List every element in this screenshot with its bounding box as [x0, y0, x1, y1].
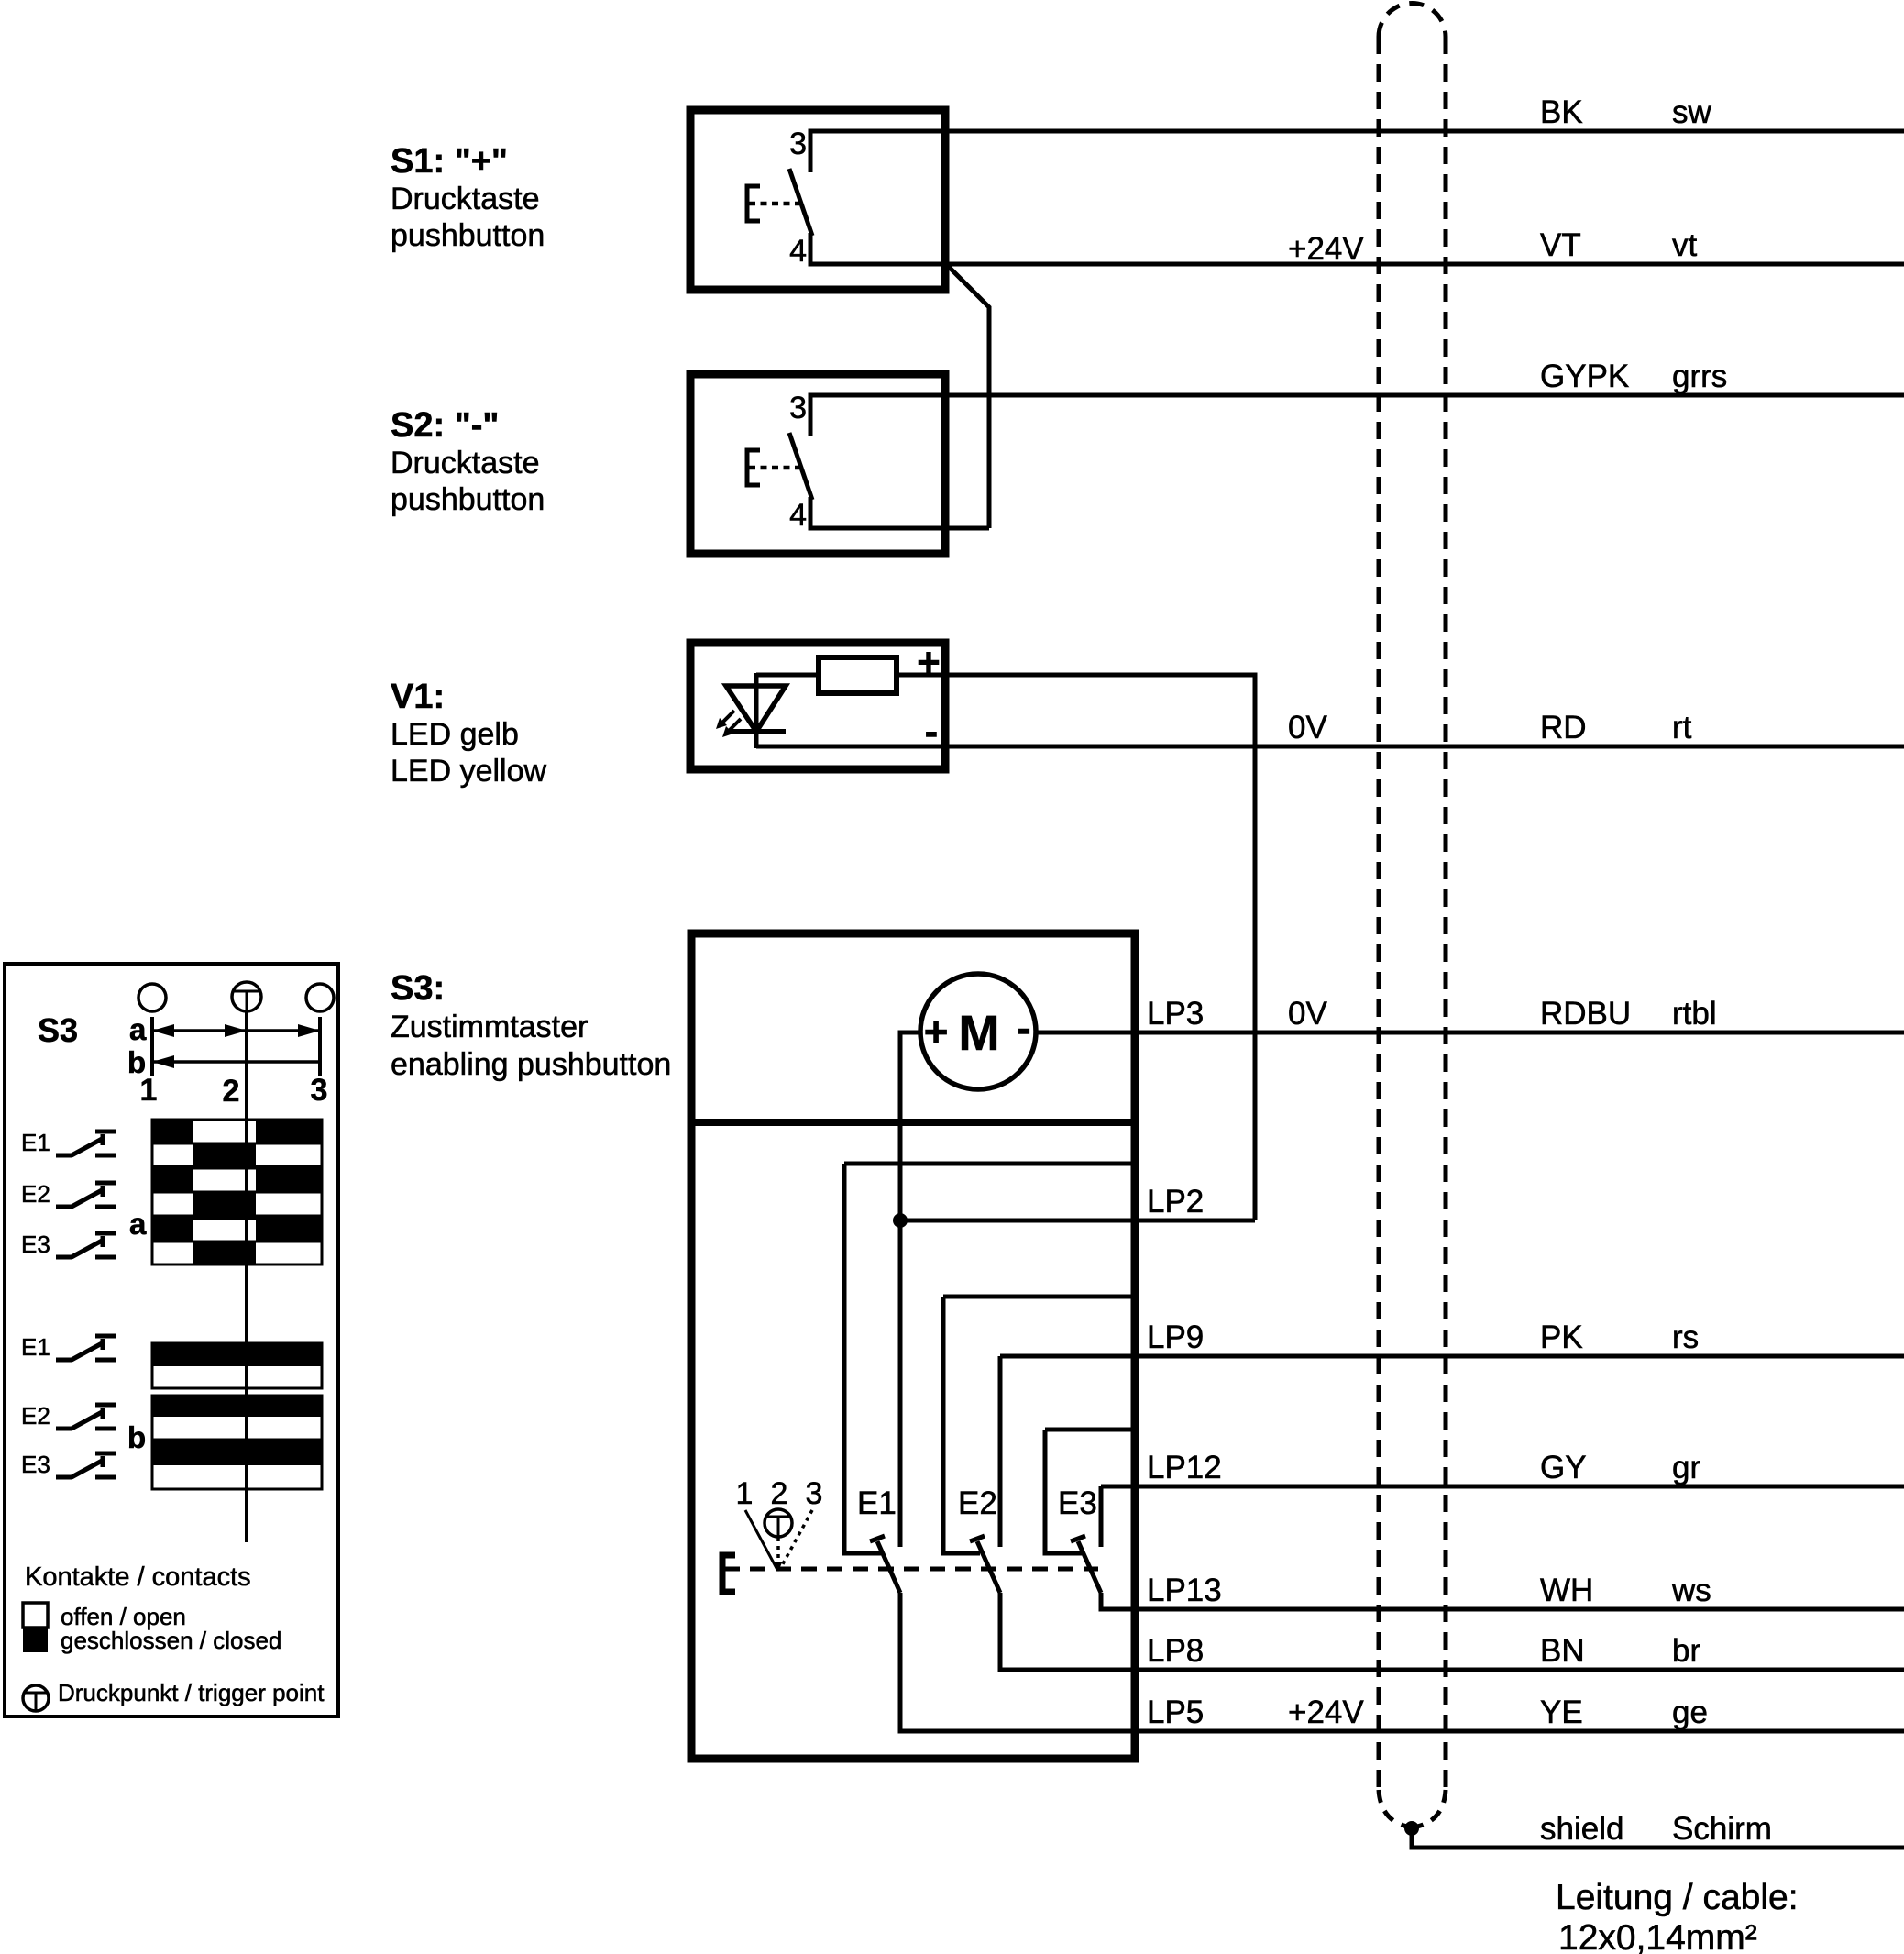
svg-text:enabling pushbutton: enabling pushbutton — [391, 1047, 671, 1082]
wire BK from S1 pin 3 — [810, 131, 1904, 172]
svg-text:LED yellow: LED yellow — [391, 754, 547, 789]
svg-text:+: + — [924, 1008, 949, 1055]
svg-text:a: a — [129, 1207, 147, 1241]
E3 left terminal lead — [1045, 1430, 1082, 1553]
S3 travel solid line from 1 — [745, 1510, 777, 1570]
svg-text:1: 1 — [140, 1073, 158, 1108]
svg-text:V1:: V1: — [391, 678, 445, 716]
E3 output lead to LP13 — [1101, 1593, 1904, 1609]
svg-text:LP5: LP5 — [1147, 1695, 1204, 1730]
legend closed square — [23, 1628, 48, 1652]
svg-text:2: 2 — [771, 1476, 788, 1511]
V1 anode wire to resistor — [756, 673, 819, 678]
svg-text:M: M — [959, 1006, 1000, 1061]
shield junction dot — [1404, 1821, 1419, 1836]
svg-text:GYPK: GYPK — [1540, 359, 1629, 394]
wire E3 upper terminal to frame — [1045, 1428, 1135, 1432]
S1 pin 4 lead — [809, 235, 813, 266]
svg-text:0V: 0V — [1288, 710, 1327, 745]
S2 actuator bracket — [747, 450, 760, 485]
svg-text:RDBU: RDBU — [1540, 996, 1631, 1032]
svg-text:Kontakte / contacts: Kontakte / contacts — [25, 1562, 251, 1592]
wire GYPK from S2 pin 3 — [810, 395, 1904, 436]
svg-text:12x0,14mm²: 12x0,14mm² — [1558, 1918, 1757, 1954]
S1 actuator bracket — [747, 186, 760, 221]
pushbutton S1 box — [690, 110, 945, 290]
svg-text:Druckpunkt / trigger point: Druckpunkt / trigger point — [58, 1679, 325, 1706]
svg-text:1: 1 — [736, 1476, 754, 1511]
table b row E2 switch symbol — [56, 1405, 116, 1429]
wire E2 upper terminal to frame — [943, 1295, 1135, 1299]
svg-text:YE: YE — [1540, 1695, 1583, 1730]
motor M1 circle — [920, 974, 1036, 1089]
svg-text:RD: RD — [1540, 710, 1587, 745]
svg-text:LP9: LP9 — [1147, 1319, 1204, 1355]
cable sheath bottom converge left — [1379, 1790, 1407, 1827]
table a row E2 switch symbol — [56, 1183, 116, 1207]
E2 output lead to LP8 — [1000, 1593, 1904, 1670]
S3 actuator bracket — [722, 1555, 735, 1592]
svg-text:0V: 0V — [1288, 996, 1327, 1032]
svg-text:LP13: LP13 — [1147, 1573, 1222, 1608]
E3 switch blade — [1071, 1536, 1101, 1593]
travel arrow a mid head — [225, 1024, 247, 1037]
S3 internal divider — [691, 1119, 1135, 1126]
svg-text:S2: "-": S2: "-" — [391, 406, 499, 445]
svg-text:rtbl: rtbl — [1672, 996, 1717, 1032]
svg-text:PK: PK — [1540, 1319, 1583, 1355]
table a row E1 switch symbol — [56, 1132, 116, 1155]
table b E3 cells — [152, 1442, 322, 1489]
svg-text:Leitung / cable:: Leitung / cable: — [1556, 1878, 1799, 1917]
svg-text:4: 4 — [789, 498, 807, 533]
svg-text:2: 2 — [223, 1074, 240, 1109]
button position circle 1 — [138, 984, 166, 1011]
svg-text:br: br — [1672, 1633, 1700, 1669]
svg-text:rt: rt — [1672, 710, 1692, 745]
travel tick 3 — [318, 1017, 322, 1076]
travel arrow a right head — [298, 1024, 320, 1037]
svg-text:S3: S3 — [38, 1011, 78, 1049]
V1 LED emission arrow 2 — [722, 719, 741, 737]
svg-text:ge: ge — [1672, 1695, 1708, 1730]
travel arrow a left head — [152, 1024, 174, 1037]
wire LP9 PK from E2 — [1000, 1354, 1904, 1359]
svg-text:E3: E3 — [1058, 1485, 1097, 1521]
enabling switch S3 box — [691, 933, 1135, 1759]
svg-text:E1: E1 — [21, 1129, 50, 1156]
travel tick 1 — [150, 1017, 154, 1076]
S3 trigger point symbol — [765, 1509, 792, 1537]
wire motor plus down to E1 — [900, 1032, 920, 1547]
svg-text:grrs: grrs — [1672, 359, 1727, 394]
S3 travel dotted line from 2 — [776, 1538, 780, 1566]
wire E1 upper terminal to frame — [844, 1162, 1135, 1166]
svg-text:E2: E2 — [21, 1402, 50, 1430]
E2 right terminal lead from LP9 — [998, 1356, 1003, 1547]
travel arrow a line — [152, 1029, 320, 1032]
wire LP2 stub — [900, 1219, 1255, 1223]
svg-text:LP2: LP2 — [1147, 1184, 1204, 1220]
button position circle 2 trigger — [232, 982, 261, 1011]
wire motor minus to LP3 RDBU — [1038, 1031, 1904, 1035]
table b row E1 switch symbol — [56, 1336, 116, 1360]
wire RD 0V from V1 minus — [756, 745, 1904, 749]
svg-text:BK: BK — [1540, 94, 1583, 130]
E1 output lead to LP5 — [900, 1593, 1904, 1731]
cable sheath left dashed line — [1377, 37, 1381, 1790]
svg-text:a: a — [129, 1012, 147, 1046]
travel arrow b line — [152, 1060, 320, 1064]
svg-text:LP8: LP8 — [1147, 1633, 1204, 1669]
V1 resistor — [819, 657, 897, 693]
svg-text:vt: vt — [1672, 227, 1698, 263]
svg-text:E3: E3 — [21, 1451, 50, 1478]
svg-text:Zustimmtaster: Zustimmtaster — [391, 1010, 588, 1044]
table b E2 cells — [152, 1396, 322, 1440]
node junction LP2 — [893, 1213, 908, 1228]
sidebar center line — [245, 1011, 248, 1542]
svg-text:3: 3 — [806, 1476, 823, 1511]
svg-text:shield: shield — [1540, 1811, 1623, 1847]
E3 right terminal lead from LP12 — [1099, 1486, 1104, 1547]
svg-text:E1: E1 — [857, 1485, 897, 1521]
S3 travel dotted line from 3 — [780, 1510, 812, 1569]
table b E1 cells — [152, 1343, 322, 1388]
pushbutton S2 box — [690, 374, 945, 554]
cable sheath right dashed line — [1444, 37, 1448, 1790]
cable sheath top arc — [1379, 3, 1446, 37]
travel arrow b left head — [152, 1055, 174, 1068]
legend trigger symbol — [23, 1685, 49, 1711]
S3 actuator linkage (dashed) — [724, 1567, 1098, 1572]
svg-text:pushbutton: pushbutton — [391, 482, 545, 517]
cable sheath bottom converge right — [1417, 1790, 1446, 1827]
legend open square — [23, 1603, 48, 1628]
svg-text:S3:: S3: — [391, 969, 445, 1008]
E2 left terminal lead — [943, 1297, 980, 1553]
S2 actuator linkage (dashed) — [749, 466, 799, 470]
table a E2 cells — [152, 1168, 322, 1216]
svg-text:b: b — [127, 1420, 146, 1454]
svg-text:E2: E2 — [21, 1180, 50, 1208]
svg-text:Drucktaste: Drucktaste — [391, 182, 540, 216]
svg-text:Drucktaste: Drucktaste — [391, 446, 540, 480]
svg-text:ws: ws — [1671, 1573, 1711, 1608]
svg-text:+24V: +24V — [1288, 1695, 1364, 1730]
svg-text:+24V: +24V — [1288, 231, 1364, 267]
svg-text:-: - — [1017, 1004, 1030, 1052]
S1 switch blade — [789, 169, 812, 236]
wire shield — [1412, 1828, 1904, 1848]
svg-text:3: 3 — [311, 1073, 328, 1108]
wire V1 plus to LP2 node — [897, 675, 1255, 1220]
svg-text:sw: sw — [1672, 94, 1712, 130]
S3 contact table box — [5, 964, 338, 1717]
svg-text:LP3: LP3 — [1147, 996, 1204, 1032]
svg-text:BN: BN — [1540, 1633, 1585, 1669]
table a row E3 switch symbol — [56, 1233, 116, 1257]
svg-text:4: 4 — [789, 234, 807, 269]
S2 pin 4 lead — [809, 499, 813, 530]
V1 LED triangle — [726, 686, 786, 732]
LED V1 box — [690, 643, 945, 769]
E1 left terminal lead — [844, 1164, 881, 1553]
wire branch S1 pin4 to S2 pin4 — [948, 266, 989, 528]
E1 switch blade — [870, 1536, 900, 1593]
svg-text:LP12: LP12 — [1147, 1450, 1222, 1485]
E2 switch blade — [970, 1536, 1000, 1593]
S1 actuator linkage (dashed) — [749, 202, 799, 206]
svg-text:rs: rs — [1672, 1319, 1699, 1355]
svg-text:WH: WH — [1540, 1573, 1593, 1608]
table b row E3 switch symbol — [56, 1453, 116, 1477]
svg-text:S1: "+": S1: "+" — [391, 142, 508, 181]
svg-text:E2: E2 — [958, 1485, 997, 1521]
S1 pin 3 lead — [809, 129, 813, 171]
wire S2 pin 4 to branch — [810, 497, 989, 528]
V1 LED cathode bar — [726, 729, 786, 734]
table a E3 cells — [152, 1219, 322, 1264]
svg-text:E3: E3 — [21, 1231, 50, 1258]
svg-text:+: + — [917, 640, 941, 685]
button position circle 3 — [306, 984, 334, 1011]
V1 LED center lead — [754, 673, 759, 748]
table a E1 cells — [152, 1120, 322, 1166]
svg-text:3: 3 — [789, 127, 807, 161]
wire LP12 GY from E3 — [1101, 1485, 1904, 1489]
svg-text:pushbutton: pushbutton — [391, 218, 545, 253]
svg-text:VT: VT — [1540, 227, 1581, 263]
S2 switch blade — [789, 433, 812, 500]
svg-text:Schirm: Schirm — [1672, 1811, 1772, 1847]
V1 LED emission arrow 1 — [716, 711, 734, 729]
svg-text:LED gelb: LED gelb — [391, 717, 519, 752]
svg-text:gr: gr — [1672, 1450, 1700, 1485]
svg-text:E1: E1 — [21, 1333, 50, 1361]
svg-text:3: 3 — [789, 391, 807, 425]
S2 pin 3 lead — [809, 393, 813, 435]
svg-text:geschlossen / closed: geschlossen / closed — [61, 1627, 281, 1654]
wire VT +24V from S1 pin 4 — [810, 233, 1904, 264]
svg-text:GY: GY — [1540, 1450, 1587, 1485]
